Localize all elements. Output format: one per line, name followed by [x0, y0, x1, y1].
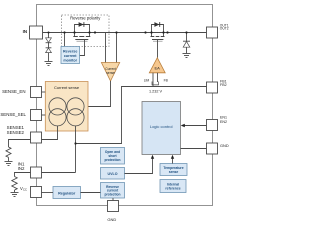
wire	[48, 43, 50, 48]
UVLO block	[101, 168, 125, 180]
resistor R1	[12, 177, 17, 191]
ground under sense resistor	[5, 162, 13, 166]
wire to IN1 IN2 pins	[42, 172, 76, 174]
wire current sense output down	[75, 126, 77, 173]
wire EA LIM input	[152, 73, 154, 87]
ground under TVS	[45, 62, 53, 66]
TVS diode D1	[46, 38, 52, 43]
pin GND bottom	[108, 201, 119, 212]
svg-text:SENSE_SEL: SENSE_SEL	[0, 112, 26, 117]
protection block open and short	[101, 148, 125, 165]
wire IN1 pulldown	[15, 173, 31, 177]
svg-text:UVLO: UVLO	[108, 172, 118, 176]
wire	[14, 190, 16, 193]
svg-text:protection: protection	[104, 158, 120, 162]
chip outline	[37, 5, 213, 206]
wire EA FB input	[157, 73, 159, 82]
svg-text:1.232 V: 1.232 V	[149, 90, 163, 94]
reverse current protection block	[101, 183, 125, 199]
svg-text:GND: GND	[220, 143, 229, 148]
op-amp EA error amplifier	[149, 58, 165, 73]
transistor Q2 output FET	[152, 25, 164, 37]
svg-text:Logic control: Logic control	[150, 124, 173, 129]
main rail wire IN to OUT	[43, 32, 207, 34]
reference source symbol	[152, 82, 159, 85]
svg-text:FB2: FB2	[220, 83, 227, 87]
svg-text:LIM: LIM	[144, 79, 150, 83]
pin SENSE_EN	[31, 87, 42, 98]
svg-text:IN2: IN2	[18, 166, 25, 171]
wire TVS branch	[48, 33, 50, 38]
wire monitor branch	[64, 33, 66, 47]
svg-text:Reverse: Reverse	[63, 49, 77, 53]
ground under resistor	[11, 193, 19, 197]
svg-text:EA: EA	[155, 66, 161, 71]
body diode of Q2	[154, 22, 159, 27]
wire	[8, 157, 10, 161]
svg-text:sense: sense	[106, 71, 115, 75]
pin SENSE1 SENSE2	[31, 132, 42, 143]
reverse current monitor block	[61, 47, 80, 64]
wire regulator to reverse current protection	[81, 192, 101, 194]
pin IN1 IN2	[31, 167, 42, 178]
svg-text:reference: reference	[165, 186, 180, 190]
svg-text:SENSE1: SENSE1	[7, 125, 25, 130]
wire EN pins to logic with arrow	[184, 125, 207, 127]
logic control block	[142, 102, 181, 155]
body diode of Q1	[79, 22, 84, 27]
wire Q1 gate to monitor	[80, 40, 85, 56]
pin SENSE_SEL	[31, 110, 42, 121]
Q2 gate	[152, 39, 163, 41]
wire current sense taps	[105, 33, 107, 63]
wire GND pin stub	[112, 198, 114, 201]
svg-text:monitor: monitor	[63, 58, 77, 62]
svg-text:OUT2: OUT2	[220, 27, 229, 31]
wire FB net	[76, 87, 207, 144]
pin GND right	[207, 143, 218, 154]
svg-text:FB: FB	[164, 79, 169, 83]
svg-text:IN: IN	[23, 29, 27, 34]
wire SENSE_EN to current sense	[42, 91, 46, 93]
transistor Q1 reverse polarity FET	[75, 25, 90, 37]
wire	[48, 53, 50, 62]
current mirror circles	[49, 98, 84, 126]
regulator block	[53, 187, 81, 199]
svg-text:EN2: EN2	[220, 120, 227, 124]
pin IN	[30, 26, 43, 39]
svg-text:VCC: VCC	[20, 186, 27, 192]
pin EN1 EN2	[207, 120, 218, 131]
svg-text:Reverse polarity: Reverse polarity	[70, 16, 101, 21]
resistor R sense	[6, 147, 11, 157]
Q1 channel contacts	[73, 36, 90, 38]
wire SENSE_SEL to current sense	[42, 114, 46, 116]
current sense block	[45, 82, 88, 132]
pin VCC	[31, 187, 42, 198]
ground under zener	[183, 54, 191, 58]
svg-text:SENSE_EN: SENSE_EN	[2, 89, 25, 94]
wire current sense to SENSE pins	[42, 126, 58, 140]
wire VCC to regulator	[42, 192, 54, 194]
node junction	[74, 142, 76, 144]
junction dots on rail	[48, 31, 188, 33]
wire amp output to current sense block	[88, 81, 111, 107]
internal reference block	[160, 180, 186, 193]
svg-text:GND: GND	[107, 217, 116, 222]
op-amp current sense amplifier	[101, 63, 119, 82]
wire temperature sense to logic with arrow	[172, 158, 174, 164]
svg-text:Current sense: Current sense	[54, 85, 80, 90]
temperature sense block	[160, 164, 187, 176]
Q2 channel contacts	[151, 36, 165, 38]
reverse polarity dashed enclosure	[62, 15, 110, 47]
wire SENSE pins to external resistor	[9, 140, 31, 148]
wire Q2 gate to EA	[157, 40, 159, 58]
svg-text:protection: protection	[104, 192, 120, 196]
svg-text:Regulator: Regulator	[58, 192, 76, 196]
pin FB1 FB2	[207, 82, 218, 93]
Q1 gate	[75, 39, 88, 41]
svg-text:current: current	[64, 54, 77, 58]
pin OUT1 OUT2	[207, 27, 218, 38]
wire UVLO to logic with arrow	[125, 158, 153, 174]
zener clamp at output	[186, 33, 188, 41]
svg-text:SENSE2: SENSE2	[7, 130, 25, 135]
TVS diode D2	[46, 47, 52, 49]
wire logic to GND pin	[181, 148, 207, 150]
svg-text:sense: sense	[169, 170, 179, 174]
